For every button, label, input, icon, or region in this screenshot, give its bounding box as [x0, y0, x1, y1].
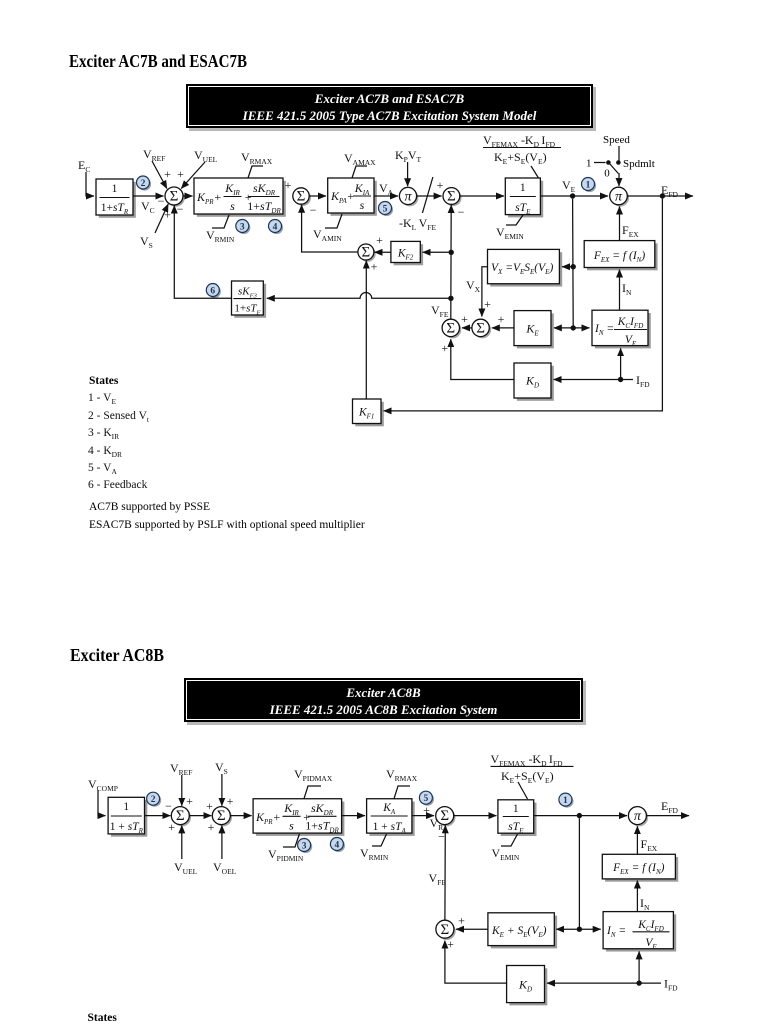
wire IN block to FEX block — [619, 270, 621, 311]
limit connector VEMIN2 — [501, 834, 518, 846]
svg-text:KE + SE(VE): KE + SE(VE) — [491, 925, 547, 939]
svg-text:3: 3 — [240, 222, 245, 232]
limit connector VPIDMIN — [283, 834, 299, 847]
wire S1 to PID block — [183, 195, 193, 197]
badge state 4 — [270, 221, 283, 234]
svg-text:3: 3 — [302, 841, 307, 851]
limit connector VRMAX — [248, 166, 263, 178]
wire PID2 to KA block — [342, 815, 365, 817]
wire S4 up to S3 VFE — [450, 205, 452, 319]
svg-text:IN =: IN = — [606, 925, 626, 939]
junction dot KF2 tap — [449, 250, 454, 255]
wire IFD2 to IN2 block — [638, 951, 640, 983]
wire EC to block TR — [86, 172, 94, 196]
wire VE2 to IN2 block — [579, 928, 600, 930]
block U7 VX=VE SE(VE) — [490, 252, 562, 286]
banner: AC8B model header — [187, 681, 586, 725]
svg-text:−: − — [458, 205, 465, 219]
svg-text:6 - Feedback: 6 - Feedback — [88, 479, 148, 491]
limit connector VAMAX — [352, 166, 367, 178]
multiplier P1 — [401, 189, 418, 206]
svg-text:Exciter AC7B and ESAC7B: Exciter AC7B and ESAC7B — [69, 51, 247, 71]
limit connector VAMIN — [325, 214, 342, 228]
svg-text:6: 6 — [210, 286, 215, 296]
wire FEX2 block to P3 — [636, 826, 638, 854]
svg-text:+: + — [206, 799, 213, 813]
wire VFE left with hop to KF3 block — [267, 293, 451, 299]
junction dot IFD2 — [636, 980, 641, 985]
wire P2 to EFD output — [627, 195, 693, 197]
summing junction S6 — [360, 246, 376, 262]
svg-text:4: 4 — [335, 840, 340, 850]
banner: AC7B model header — [189, 87, 596, 131]
wire S6 to S2 — [302, 205, 358, 252]
svg-text:Σ: Σ — [476, 321, 485, 337]
wire VREF2 to SA — [181, 775, 183, 806]
svg-text:−: − — [177, 202, 184, 216]
wire KPVT to P1 — [407, 162, 409, 186]
formula fraction bar — [483, 147, 561, 149]
summing junction SC — [438, 808, 456, 826]
svg-text:ESAC7B supported by PSLF with: ESAC7B supported by PSLF with optional s… — [89, 519, 365, 531]
badge state 3 d2 — [299, 840, 312, 853]
junction dot VE2 tap — [577, 813, 582, 818]
wire VREF to S1 — [152, 161, 167, 189]
block U15 KA/(1+sTA) — [369, 802, 414, 836]
svg-text:π: π — [615, 189, 623, 204]
wire TR to sum S1 — [133, 195, 164, 197]
wire IFD to KD — [554, 379, 621, 381]
wire S2 to KPA block — [309, 195, 326, 197]
wire VE2 to KESE block — [556, 928, 579, 930]
svg-text:1: 1 — [112, 183, 118, 195]
wire VE to KE block — [554, 327, 573, 329]
summing junction SD — [438, 922, 456, 940]
svg-text:Σ: Σ — [441, 922, 450, 938]
wire VE to IN block — [573, 327, 589, 329]
badge state 1 d2 — [561, 795, 574, 808]
badge state 1 — [583, 179, 596, 192]
wire KA to SC — [412, 815, 434, 817]
wire SA to SB — [189, 815, 211, 817]
svg-text:+: + — [208, 820, 215, 834]
junction dot EFD tap — [660, 193, 665, 198]
limit connector VEMIN — [506, 215, 523, 225]
block U13 1/(1+sTR) — [111, 800, 147, 837]
formula2 fraction bar — [491, 765, 574, 767]
wire P1 to S3 — [417, 195, 442, 197]
wire TE2 to mult P3 — [534, 815, 627, 817]
badge state 5 — [380, 203, 393, 216]
wire VOEL2 to SB — [221, 825, 223, 859]
block U4 1/sTE — [508, 181, 543, 218]
svg-text:1: 1 — [563, 796, 568, 806]
svg-text:+: + — [371, 260, 378, 274]
wire KD2 to SD — [445, 941, 507, 984]
svg-text:+: + — [227, 794, 234, 808]
svg-text:+: + — [376, 233, 383, 247]
wire VUEL2 to SA — [181, 825, 183, 859]
block U17 FEX=f(IN) — [605, 857, 678, 882]
svg-text:s: s — [360, 198, 365, 212]
junction dot VE to VX — [571, 264, 576, 269]
wire KPA to mult P1 — [374, 195, 398, 197]
badge state 2 — [138, 178, 151, 191]
svg-text:5: 5 — [383, 204, 388, 214]
wire VE tap down — [572, 199, 575, 328]
block U14 PID KPR+KIR/s+sKDR/(1+sTDR) — [256, 802, 345, 836]
switch wire from 1 — [594, 162, 606, 164]
svg-text:+: + — [164, 167, 171, 181]
block U9 sKF3/(1+sTF) — [234, 284, 266, 318]
svg-text:+: + — [186, 794, 193, 808]
wire KD to S4 — [451, 339, 514, 379]
wire SB to PID2 — [230, 815, 251, 817]
svg-text:4: 4 — [273, 222, 278, 232]
block U1 1/(1+sTR) — [99, 182, 136, 218]
wire IN2 block to FEX2 block — [636, 881, 638, 912]
block U20 KD — [509, 968, 547, 1005]
wire KF2 to S6 — [375, 251, 391, 253]
svg-text:Σ: Σ — [440, 808, 449, 824]
svg-text:+: + — [498, 312, 505, 326]
svg-text:−: − — [165, 799, 172, 813]
summing junction S2 — [295, 190, 311, 206]
svg-text:+: + — [168, 820, 175, 834]
svg-text:+: + — [177, 167, 184, 181]
wire VE to VX block — [562, 266, 573, 268]
svg-text:1: 1 — [586, 180, 591, 190]
wire KE to S5 — [492, 327, 514, 329]
svg-text:+: + — [461, 312, 468, 326]
wire VX block to sum S5 — [482, 267, 488, 317]
svg-text:Σ: Σ — [297, 189, 306, 205]
wire IFD2 stub — [642, 982, 662, 984]
svg-text:2: 2 — [151, 795, 156, 805]
limit slash KL VFE — [422, 177, 433, 213]
block U18 IN=KC IFD/VE — [606, 914, 676, 951]
svg-text:−: − — [310, 203, 317, 217]
svg-text:2 - Sensed Vt: 2 - Sensed Vt — [88, 410, 150, 424]
block U2 PID KPR+KIR/s+sKDR/(1+sTDR) — [197, 181, 286, 217]
summing junction S4 — [444, 321, 461, 338]
svg-text:Speed: Speed — [603, 134, 630, 146]
svg-text:IEEE 421.5 2005 Type AC7B Exci: IEEE 421.5 2005 Type AC7B Excitation Sys… — [242, 108, 537, 123]
junction dot VFE branch — [448, 296, 453, 301]
wire KF1 up to S6 — [365, 261, 367, 399]
multiplier P3 — [630, 808, 648, 826]
badge state 4 d2 — [332, 839, 345, 852]
wire Speed to switch — [618, 146, 620, 161]
block U5 FEX=f(IN) — [587, 243, 658, 270]
svg-text:+: + — [164, 208, 171, 222]
svg-text:States: States — [88, 1012, 118, 1024]
wire VS2 to SB — [221, 774, 223, 806]
wire integrator to mult P2 main VE wire — [540, 195, 608, 197]
block U8 KE — [517, 313, 554, 348]
badge state 3 — [237, 221, 250, 234]
svg-text:+: + — [441, 341, 448, 355]
wire SD up to SC VFE2 — [444, 825, 446, 920]
junction dot IFD — [618, 377, 623, 382]
wire KESE to SD — [456, 928, 488, 930]
svg-text:−: − — [158, 194, 165, 208]
svg-text:−: − — [438, 830, 445, 844]
svg-text:+: + — [423, 803, 430, 817]
svg-text:1: 1 — [520, 182, 526, 194]
svg-text:s: s — [230, 199, 235, 213]
svg-text:IEEE 421.5 2005 AC8B Excitatio: IEEE 421.5 2005 AC8B Excitation System — [269, 702, 498, 717]
junction dot VE to KE — [571, 325, 576, 330]
svg-text:Σ: Σ — [217, 808, 226, 824]
wire VCOMP to block TR2 — [98, 790, 106, 816]
summing junction S3 — [445, 189, 462, 206]
limit connector VRMIN — [212, 215, 229, 228]
wire IFD2 to KD2 — [547, 982, 639, 984]
switch contact dot speed side — [616, 160, 621, 165]
multiplier P2 — [612, 189, 630, 207]
svg-text:+: + — [437, 178, 444, 192]
limit connector VRMAX2 — [394, 786, 410, 799]
wire VS to S1 — [155, 204, 168, 233]
badge state 2 d2 — [148, 794, 161, 807]
svg-text:1: 1 — [123, 801, 129, 813]
wire IFD to IN block — [620, 348, 622, 379]
badge state 6 — [208, 285, 221, 298]
connector formula to block — [531, 166, 539, 178]
block U16 1/sTE — [501, 803, 537, 836]
wire P3 to EFD2 out — [647, 815, 689, 817]
block U10 KF2 — [394, 244, 423, 265]
svg-text:0: 0 — [604, 168, 610, 180]
svg-text:States: States — [89, 375, 119, 387]
svg-text:1: 1 — [586, 158, 592, 170]
block U3 KPA+KIA/s — [331, 181, 377, 216]
svg-text:Σ: Σ — [176, 808, 185, 824]
svg-text:+: + — [285, 178, 292, 192]
summing junction S1 — [167, 189, 185, 207]
svg-text:Σ: Σ — [447, 189, 456, 205]
wire S5 to S4 — [462, 327, 472, 329]
block U19 KE+SE(VE) — [491, 916, 557, 949]
wire TR2 to SA — [145, 815, 171, 817]
wire switch to P2 — [618, 173, 620, 186]
svg-text:Exciter AC7B and ESAC7B: Exciter AC7B and ESAC7B — [314, 91, 465, 106]
wire VUEL to S1 — [181, 162, 205, 189]
svg-text:1 + sTA: 1 + sTA — [373, 821, 407, 835]
junction dot VE tap — [570, 193, 575, 198]
svg-text:IN =: IN = — [594, 323, 614, 337]
wire FEX block to P2 — [619, 207, 621, 241]
svg-text:Σ: Σ — [446, 321, 455, 337]
block U6 IN=KC IFD/VE — [595, 313, 651, 348]
connector formula2 to block — [518, 782, 528, 799]
svg-text:+: + — [458, 914, 465, 928]
junction dot VE2 branch — [577, 927, 582, 932]
summing junction SA — [173, 808, 191, 826]
summing junction S5 — [474, 321, 491, 338]
limit connector VPIDMAX — [304, 786, 321, 799]
wire EFD feedback to KF1 — [384, 199, 663, 411]
wire VFE to KF2 — [423, 251, 452, 253]
svg-text:+: + — [484, 297, 491, 311]
svg-text:2: 2 — [141, 179, 146, 189]
svg-text:1: 1 — [513, 803, 519, 815]
svg-text:Spdmlt: Spdmlt — [623, 158, 655, 170]
svg-text:s: s — [289, 819, 294, 833]
limit connector VRMIN2 — [372, 834, 387, 846]
wire SC to TE2 — [454, 815, 497, 817]
switch contact dot 1 side — [606, 160, 611, 165]
block U11 KF1 — [355, 402, 384, 427]
svg-text:Exciter AC8B: Exciter AC8B — [70, 645, 164, 665]
svg-text:Exciter AC8B: Exciter AC8B — [345, 685, 421, 700]
wire S3 to integrator — [460, 195, 504, 197]
badge state 5 d2 — [421, 793, 434, 806]
wire KF3 out to S1 — [174, 206, 231, 299]
svg-text:Σ: Σ — [362, 245, 371, 261]
svg-text:+: + — [447, 937, 454, 951]
svg-text:π: π — [404, 189, 412, 204]
block U12 KD — [517, 366, 554, 401]
summing junction SB — [214, 808, 232, 826]
wire VE2 down — [578, 818, 580, 929]
svg-text:π: π — [634, 809, 642, 824]
svg-text:AC7B supported by PSSE: AC7B supported by PSSE — [89, 501, 210, 513]
switch blade — [610, 164, 618, 174]
svg-text:1 + sTR: 1 + sTR — [110, 821, 144, 835]
wire IFD stub — [623, 379, 633, 381]
